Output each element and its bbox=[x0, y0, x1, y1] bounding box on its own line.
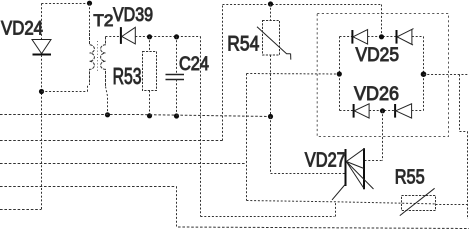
svg-text:VD24: VD24 bbox=[1, 18, 43, 40]
wire down to VD25 center bbox=[381, 5, 383, 37]
transformer T2 secondary winding bbox=[101, 37, 106, 87]
svg-text:R53: R53 bbox=[113, 63, 142, 89]
wire R53 bottom lead bbox=[149, 91, 151, 117]
bus line bottom y227 bbox=[178, 227, 469, 229]
svg-text:VD25: VD25 bbox=[356, 44, 400, 66]
transformer T2 primary winding bbox=[90, 33, 95, 85]
diode VD39 bbox=[121, 27, 135, 44]
svg-text:R55: R55 bbox=[395, 166, 425, 188]
diode VD26a bbox=[354, 104, 370, 118]
wire VD25 row left bbox=[340, 36, 353, 38]
wire down then right to VD27 bbox=[271, 117, 346, 174]
varistor R55 bbox=[400, 188, 436, 215]
wire right edge vertical x459 bbox=[460, 75, 468, 220]
svg-text:VD26: VD26 bbox=[354, 83, 399, 105]
wire vertical x246 bbox=[246, 74, 248, 201]
wire R55 output bbox=[436, 204, 469, 206]
wire branch to T2 primary bottom bbox=[42, 85, 88, 92]
wire connector right x423 bbox=[423, 37, 425, 111]
wire top line y4 bbox=[223, 4, 382, 6]
wire connector left x339 bbox=[339, 37, 341, 111]
transformer T2 core bbox=[97, 41, 99, 73]
bus line y210 to VD24 bbox=[0, 209, 42, 211]
varistor R54 bbox=[257, 21, 291, 60]
wire VD27 output bbox=[365, 160, 383, 162]
dashed enclosure box VD25 VD26 bbox=[317, 14, 448, 137]
thyristor VD27 bbox=[332, 148, 374, 200]
node VD26 center junction bbox=[380, 108, 385, 113]
node R53 bottom junction bbox=[147, 113, 152, 118]
wire vertical from rail down x200 bbox=[200, 37, 202, 217]
diode VD24 bbox=[32, 40, 51, 55]
svg-text:VD27: VD27 bbox=[305, 149, 346, 171]
svg-text:VD39: VD39 bbox=[113, 5, 153, 26]
wire R54 bottom lead bbox=[270, 55, 272, 117]
wire y201 to R55 bbox=[247, 201, 436, 204]
wire VD26 center down to VD27 out bbox=[382, 111, 384, 161]
node VD25 center junction bbox=[379, 34, 384, 39]
wire T2 secondary bottom to bus bbox=[106, 87, 108, 115]
wire corner down x177 bbox=[176, 187, 178, 228]
node right connector junction bbox=[421, 71, 427, 77]
diode VD25a bbox=[352, 30, 367, 44]
resistor R53 bbox=[143, 52, 157, 91]
bus line y115 bbox=[0, 115, 271, 117]
diode VD26b bbox=[395, 104, 412, 118]
wire C24 top lead bbox=[176, 37, 178, 75]
wire vertical x222 up to top line bbox=[222, 5, 224, 141]
wire y74 right to edge bbox=[424, 74, 469, 76]
node left connector junction bbox=[337, 71, 342, 76]
node junction top at T2 primary bbox=[87, 1, 92, 6]
diode VD25b bbox=[397, 29, 414, 45]
wire y217 to gate jog bbox=[201, 202, 336, 217]
wire VD26 row left bbox=[340, 110, 354, 112]
bus line y140 bbox=[0, 140, 223, 142]
wire VD39 anode rail to x200 bbox=[135, 36, 200, 38]
wire top-left dashed segment bbox=[42, 3, 90, 5]
capacitor C24 bbox=[166, 75, 185, 80]
svg-text:R54: R54 bbox=[227, 33, 259, 56]
node C24 top junction bbox=[174, 34, 179, 39]
wire C24 bottom lead bbox=[176, 80, 178, 117]
svg-text:C24: C24 bbox=[179, 54, 209, 75]
wire VD24 anode from top bbox=[41, 4, 43, 40]
wire T2 primary top bbox=[89, 4, 91, 34]
bus line y186 bbox=[0, 186, 177, 188]
node C24 bottom junction bbox=[174, 113, 179, 118]
node junction secondary to bus bbox=[105, 112, 110, 117]
wire VD26 middle bbox=[369, 110, 395, 112]
wire y73 to diode block bbox=[247, 73, 340, 76]
node R53 top junction bbox=[147, 34, 152, 39]
wire R53 top lead bbox=[149, 37, 151, 52]
bus line y164 bbox=[0, 163, 247, 165]
node dot on VD24 wire bbox=[39, 89, 44, 94]
wire R54 top lead bbox=[270, 4, 272, 21]
wire T2 secondary top to VD39 bbox=[106, 36, 121, 38]
wire VD25 middle bbox=[368, 36, 397, 38]
node R54 bottom junction bbox=[268, 114, 273, 119]
wire VD25 row right bbox=[412, 36, 424, 38]
wire VD26 row right bbox=[412, 110, 424, 112]
svg-text:T2: T2 bbox=[93, 11, 113, 30]
node R54 top junction bbox=[268, 1, 273, 6]
wire VD24 cathode down bbox=[41, 55, 43, 210]
